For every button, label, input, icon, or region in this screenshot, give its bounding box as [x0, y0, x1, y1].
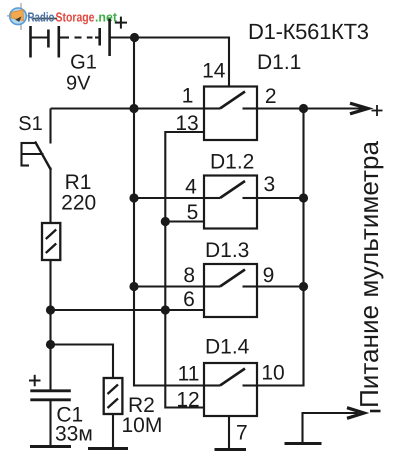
wire battery to pin14 corner [110, 38, 229, 87]
svg-text:G1: G1 [70, 52, 97, 74]
switch S1 [22, 109, 52, 224]
wire R1 bottom [49, 260, 51, 390]
svg-text:4: 4 [185, 176, 197, 199]
right rail [257, 109, 304, 386]
C1 common bar [30, 445, 71, 448]
svg-text:9: 9 [263, 264, 275, 287]
analog switch D1.1 [204, 87, 257, 141]
node control left [46, 305, 55, 314]
svg-text:2: 2 [265, 85, 277, 108]
pin 4 wire [134, 197, 204, 199]
C1 plus sign [29, 375, 41, 387]
svg-text:6: 6 [183, 288, 195, 311]
minus output terminal [285, 408, 365, 444]
node pin3 junction [299, 193, 308, 202]
node pin8 junction [129, 282, 138, 291]
svg-text:10: 10 [261, 362, 284, 385]
node pin9 junction [299, 282, 308, 291]
capacitor C1 [30, 391, 71, 446]
svg-text:.net: .net [95, 10, 118, 25]
svg-text:7: 7 [236, 422, 248, 445]
R2 common bar [88, 447, 128, 450]
battery G1 [31, 19, 110, 58]
wire pin2 to rail [257, 107, 304, 109]
pin 8 wire [134, 285, 204, 287]
svg-text:9V: 9V [66, 73, 91, 95]
svg-text:D1.2: D1.2 [210, 151, 254, 174]
pin 7 wire [228, 416, 230, 449]
svg-text:1: 1 [182, 85, 194, 108]
svg-text:Storage: Storage [56, 10, 95, 25]
svg-text:10M: 10M [122, 414, 163, 437]
svg-text:3: 3 [263, 173, 275, 196]
svg-text:8: 8 [183, 264, 195, 287]
battery plus sign [115, 17, 127, 29]
node pin1 junction [129, 104, 138, 113]
wire rail1 vertical [134, 38, 204, 386]
svg-text:14: 14 [202, 60, 226, 83]
node pin2 junction [299, 104, 308, 113]
pin 7 common bar [215, 448, 247, 451]
svg-text:11: 11 [178, 363, 200, 386]
resistor R1 [42, 223, 60, 260]
pin 5 wire [165, 220, 204, 222]
svg-text:D1.3: D1.3 [205, 239, 249, 262]
wire S1 to pin1 [51, 107, 205, 109]
node pin5 junction [161, 217, 170, 226]
analog switch D1.2 [204, 176, 257, 229]
svg-text:13: 13 [175, 112, 198, 135]
wire control to pin6 [51, 309, 205, 311]
svg-text:D1.4: D1.4 [205, 336, 250, 359]
node C1 branch [46, 340, 55, 349]
node control rail2 [161, 305, 170, 314]
resistor R2 [104, 378, 123, 448]
svg-text:5: 5 [187, 201, 199, 224]
svg-text:Radio: Radio [28, 10, 55, 25]
analog switch D1.4 [204, 363, 257, 416]
wire rail2 pin13 to pin12 [165, 132, 204, 408]
plus output sign [372, 105, 383, 116]
wire to R2 [51, 345, 114, 379]
minus output sign [370, 410, 381, 413]
svg-text:33м: 33м [55, 423, 93, 446]
pin 9 wire [257, 285, 304, 287]
svg-text:D1.1: D1.1 [257, 51, 301, 74]
svg-text:D1-К561КТ3: D1-К561КТ3 [248, 19, 369, 44]
pin 3 wire [257, 197, 304, 199]
plus output arrow [304, 103, 369, 114]
node battery junction [130, 33, 139, 42]
svg-text:220: 220 [61, 192, 96, 215]
svg-text:S1: S1 [18, 113, 42, 135]
svg-text:12: 12 [176, 389, 199, 412]
logo globe icon [7, 3, 57, 30]
svg-text:Питание мультиметра: Питание мультиметра [354, 140, 384, 408]
analog switch D1.3 [204, 264, 257, 317]
node pin4 junction [129, 193, 138, 202]
logo text RadioStorage.net [28, 10, 118, 25]
